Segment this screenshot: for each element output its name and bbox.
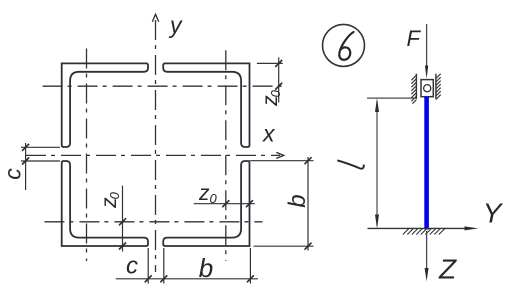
angle L2 (top-right) <box>163 63 249 147</box>
y axis arrow (open) <box>152 14 158 21</box>
svg-text:c: c <box>126 253 138 280</box>
column (blue bar) <box>424 97 429 230</box>
svg-text:x: x <box>262 121 276 147</box>
oblique tick marks <box>22 60 311 282</box>
tick bottom-right z0 at outer face <box>246 200 253 207</box>
angle L3 (bottom-left) <box>62 161 148 246</box>
dimension l bottom arrowhead <box>375 215 379 229</box>
label l (script, rotated) <box>337 160 363 168</box>
Z axis arrowhead <box>425 268 429 281</box>
dimension z0 (bottom-left) line <box>122 186 124 252</box>
node: bottom angle centroid axis <box>44 221 262 223</box>
svg-text:z0: z0 <box>98 191 122 209</box>
ground / Y axis line <box>368 227 471 229</box>
top support slider block <box>421 80 433 97</box>
dimension l line <box>376 101 378 226</box>
bottom extension line at gap left <box>147 248 149 284</box>
top support left wall line <box>415 74 417 99</box>
label b (right, rotated) <box>284 194 311 207</box>
svg-text:b: b <box>199 253 213 283</box>
svg-text:Y: Y <box>483 198 504 229</box>
node: top angle centroid axis <box>43 85 282 87</box>
x axis arrow (open) <box>276 152 283 158</box>
bottom-right z0 dimension line (horizontal) <box>194 203 255 205</box>
tick bottom dim at 164 <box>160 275 167 282</box>
top support left wall hatching <box>411 75 416 104</box>
Z axis line <box>426 231 428 270</box>
tick z0 bottom-left at bottom face <box>119 243 126 250</box>
angle L4 (bottom-right) <box>163 161 249 246</box>
label z0 (bottom-left, rotated) <box>98 191 122 209</box>
right b extension line top <box>250 160 314 162</box>
top support right wall hatching <box>436 74 441 100</box>
angle L1 (top-left) <box>62 63 148 147</box>
bottom extension line at gap right <box>163 248 165 284</box>
dimension c (left side) dimension line <box>25 143 27 190</box>
ground hatching <box>403 228 445 234</box>
Y axis arrowhead <box>465 226 479 230</box>
circle with label 6 <box>323 24 365 66</box>
node: y centroidal axis (vertical centreline) <box>155 20 157 272</box>
tick bottom dim at 250 <box>247 275 254 282</box>
tick z0 bottom-left at axis <box>119 218 126 225</box>
bottom extension line at right corner <box>249 248 251 284</box>
tick left c top <box>22 144 29 151</box>
svg-text:F: F <box>407 26 422 51</box>
top-right z0 extension line <box>257 62 283 64</box>
top support right wall line <box>435 74 437 99</box>
top support pin circle <box>424 85 431 92</box>
label z0 (top-right, rotated) <box>259 89 283 107</box>
dimension l extension line (top) <box>367 97 416 99</box>
tick bottom-right z0 at axis <box>222 200 229 207</box>
node: left angle centroid axis <box>86 49 88 262</box>
svg-text:Z: Z <box>438 253 457 284</box>
node: right angle centroid axis <box>225 50 227 261</box>
tick left c bottom <box>22 158 29 165</box>
right b dimension line <box>307 157 309 251</box>
tick top-right z0 at axis <box>275 83 282 90</box>
tick right b bottom <box>305 243 312 250</box>
svg-text:y: y <box>168 12 183 38</box>
tick top-right z0 at top face <box>275 60 282 67</box>
right b extension line bottom <box>254 245 314 247</box>
svg-text:c: c <box>0 168 26 180</box>
tick bottom dim at 148 <box>145 275 152 282</box>
bottom dimension line for c and b <box>116 278 258 280</box>
svg-text:z0: z0 <box>198 182 218 206</box>
top-right z0 dimension line <box>278 57 280 102</box>
node: x centroidal axis (horizontal centreline) <box>26 154 280 156</box>
force F arrowhead <box>425 66 428 79</box>
dimension l top arrowhead <box>375 98 379 112</box>
svg-text:z0: z0 <box>259 89 283 107</box>
force F line <box>426 24 428 67</box>
svg-text:b: b <box>284 194 311 207</box>
dimension c (left side gap) extension lines <box>21 146 60 148</box>
tick right b top <box>305 157 312 164</box>
